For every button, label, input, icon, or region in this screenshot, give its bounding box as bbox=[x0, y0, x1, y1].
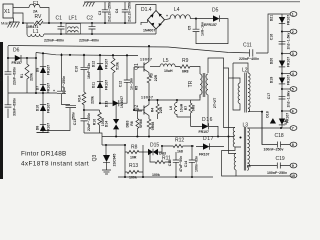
svg-text:6R8: 6R8 bbox=[192, 105, 196, 111]
svg-text:100nF~250v: 100nF~250v bbox=[264, 148, 284, 152]
wire C11 rail bbox=[249, 52, 268, 54]
svg-text:D6: D6 bbox=[13, 48, 20, 54]
svg-text:C11: C11 bbox=[243, 43, 252, 49]
svg-text:2x2.2n~250v: 2x2.2n~250v bbox=[128, 1, 132, 22]
svg-text:FR107: FR107 bbox=[105, 80, 109, 91]
inductor L5 bbox=[150, 58, 175, 73]
capacitor C3 bbox=[98, 1, 112, 23]
svg-text:C10: C10 bbox=[75, 66, 79, 72]
resistor R6 bbox=[130, 111, 143, 137]
diode D6 bbox=[12, 48, 23, 66]
capacitor C1 bbox=[56, 16, 65, 35]
wire ground rail bbox=[102, 136, 235, 138]
svg-text:FR107: FR107 bbox=[287, 15, 291, 26]
wire to D5 bbox=[190, 18, 196, 20]
svg-text:R13: R13 bbox=[129, 163, 138, 169]
wire mid rail bbox=[49, 22, 136, 24]
svg-text:C15: C15 bbox=[168, 160, 172, 166]
diac D14 bbox=[105, 102, 130, 136]
svg-text:22R: 22R bbox=[159, 106, 163, 113]
wire X1 top bbox=[13, 7, 29, 9]
terminal 1 bbox=[282, 12, 297, 17]
connector X1 bbox=[3, 4, 13, 18]
capacitor C14 bbox=[184, 145, 199, 177]
ground arrow right bbox=[270, 118, 276, 123]
svg-text:+: + bbox=[166, 14, 168, 18]
svg-text:2: 2 bbox=[292, 30, 294, 34]
wire C18 feed bbox=[262, 112, 277, 145]
capacitor C10 bbox=[75, 54, 92, 92]
svg-text:X1: X1 bbox=[4, 9, 10, 15]
svg-text:D8: D8 bbox=[36, 126, 40, 131]
border left edge (scan bar) bbox=[0, 42, 3, 179]
diode D18 bbox=[266, 111, 290, 125]
ground symbol small bbox=[283, 120, 288, 125]
terminal 6 bbox=[281, 109, 297, 114]
resistor R9 bbox=[175, 58, 200, 74]
svg-text:100R: 100R bbox=[101, 117, 105, 126]
svg-text:R1: R1 bbox=[20, 74, 24, 79]
svg-text:C7: C7 bbox=[0, 77, 4, 82]
inductor L4 bbox=[170, 7, 190, 19]
svg-text:5: 5 bbox=[292, 88, 294, 92]
svg-text:Q1: Q1 bbox=[134, 63, 140, 70]
svg-text:FR107: FR107 bbox=[47, 103, 51, 114]
diode D7 bbox=[36, 83, 51, 94]
wire pump rail bbox=[36, 53, 138, 94]
diode D9 bbox=[36, 65, 51, 76]
svg-text:R14: R14 bbox=[78, 95, 82, 101]
capacitor C2 bbox=[87, 16, 96, 35]
wire D12 column bbox=[99, 54, 101, 103]
ground hatch top bbox=[83, 2, 95, 7]
svg-text:22uF~100v: 22uF~100v bbox=[87, 113, 91, 131]
svg-text:100k: 100k bbox=[152, 173, 160, 177]
capacitor 33uF bbox=[44, 53, 77, 130]
svg-text:FR157: FR157 bbox=[12, 61, 23, 65]
wire left bus bbox=[7, 46, 9, 118]
svg-text:L5: L5 bbox=[163, 58, 169, 64]
svg-text:FR107: FR107 bbox=[199, 153, 210, 157]
wire midpoint bbox=[148, 86, 150, 100]
svg-text:C6: C6 bbox=[0, 104, 4, 109]
wire column join bbox=[84, 133, 102, 145]
capacitor C16 bbox=[269, 33, 290, 50]
resistor R13 bbox=[125, 163, 143, 180]
svg-text:13007: 13007 bbox=[140, 58, 152, 62]
capacitor C15 bbox=[168, 152, 183, 177]
svg-text:22R: 22R bbox=[154, 74, 158, 81]
resistor R1 bbox=[20, 58, 34, 93]
svg-text:510k: 510k bbox=[116, 62, 120, 70]
transformer L2 bbox=[229, 63, 264, 145]
svg-text:C16: C16 bbox=[269, 34, 273, 40]
capacitor C11 bbox=[239, 43, 259, 62]
svg-text:10uH: 10uH bbox=[180, 103, 184, 112]
svg-text:D7: D7 bbox=[36, 86, 40, 91]
wire right feed bbox=[268, 14, 282, 53]
diode D21 bbox=[269, 15, 290, 26]
svg-text:3: 3 bbox=[292, 52, 294, 56]
svg-text:D11: D11 bbox=[92, 82, 96, 88]
resistor R12 bbox=[161, 138, 194, 154]
svg-text:C19: C19 bbox=[276, 156, 285, 162]
svg-text:+: + bbox=[53, 89, 55, 93]
terminal 7 bbox=[281, 126, 297, 131]
terminal 4 bbox=[281, 71, 297, 76]
svg-text:D17: D17 bbox=[203, 136, 214, 142]
diode D10 bbox=[36, 103, 51, 114]
svg-text:R9: R9 bbox=[182, 58, 189, 64]
wire bottom rail bbox=[118, 176, 213, 178]
svg-text:DB3: DB3 bbox=[126, 120, 130, 127]
earth ground hatch bbox=[8, 18, 20, 28]
capacitor C5 bbox=[188, 19, 205, 36]
wire routing v2 bbox=[224, 68, 237, 154]
ground bar D8 bbox=[37, 132, 49, 134]
resistor 510k bbox=[111, 54, 120, 103]
svg-text:10R: 10R bbox=[130, 156, 137, 160]
svg-text:250v: 250v bbox=[72, 112, 76, 120]
terminal 9 bbox=[290, 163, 297, 168]
svg-text:C1: C1 bbox=[56, 16, 63, 22]
svg-text:D19: D19 bbox=[269, 77, 273, 83]
svg-text:220k: 220k bbox=[30, 73, 34, 81]
svg-text:FR107: FR107 bbox=[47, 65, 51, 76]
svg-text:C14: C14 bbox=[184, 161, 188, 167]
svg-text:FR107: FR107 bbox=[47, 123, 51, 134]
svg-text:2A: 2A bbox=[33, 10, 38, 14]
terminal 5 bbox=[281, 87, 297, 92]
svg-text:C13: C13 bbox=[73, 119, 77, 125]
wire lamp bus bbox=[281, 14, 283, 128]
svg-text:C17: C17 bbox=[267, 93, 271, 99]
svg-text:1k8: 1k8 bbox=[177, 150, 183, 154]
svg-text:16nF~63v: 16nF~63v bbox=[87, 63, 91, 79]
diode D19 bbox=[269, 75, 290, 86]
svg-text:100nF~250v: 100nF~250v bbox=[267, 171, 287, 175]
resistor R2 emitter bbox=[147, 119, 155, 137]
resistor R4 bbox=[151, 100, 164, 119]
transformer L3 bbox=[217, 123, 290, 177]
svg-text:8: 8 bbox=[292, 143, 294, 147]
svg-text:0R68: 0R68 bbox=[139, 119, 143, 127]
svg-text:D13: D13 bbox=[105, 101, 109, 107]
node junction bbox=[22, 22, 24, 24]
svg-text:D14: D14 bbox=[105, 121, 109, 127]
svg-text:L1: L1 bbox=[33, 29, 39, 35]
node bbox=[48, 22, 50, 24]
transformer TR bbox=[188, 73, 208, 98]
wire R8 ladder bbox=[102, 145, 143, 177]
resistor R3 bbox=[147, 73, 158, 86]
svg-text:6R8: 6R8 bbox=[182, 70, 188, 74]
wire after fuse bbox=[40, 8, 49, 24]
svg-text:33uF~250v: 33uF~250v bbox=[62, 76, 66, 94]
svg-text:2n2~1.8kv: 2n2~1.8kv bbox=[287, 91, 291, 108]
capacitor C12 bbox=[119, 54, 134, 103]
diode D16 bbox=[191, 117, 219, 137]
svg-text:10uH: 10uH bbox=[164, 69, 173, 73]
svg-text:FR107: FR107 bbox=[47, 83, 51, 94]
svg-text:1N4007: 1N4007 bbox=[143, 28, 155, 32]
transistor Q2 bbox=[134, 96, 153, 120]
diode D5 bbox=[204, 8, 220, 28]
inductor L1 bbox=[27, 23, 44, 37]
svg-text:C12: C12 bbox=[119, 81, 123, 87]
svg-text:10: 10 bbox=[291, 174, 295, 178]
svg-text:R10: R10 bbox=[93, 119, 97, 125]
svg-text:0R68: 0R68 bbox=[151, 122, 155, 130]
svg-text:220k: 220k bbox=[91, 96, 95, 104]
svg-text:6: 6 bbox=[292, 110, 294, 114]
svg-text:LF1: LF1 bbox=[69, 16, 78, 22]
svg-text:4: 4 bbox=[292, 72, 294, 76]
junction dots filter rails bbox=[60, 22, 62, 24]
svg-text:R7: R7 bbox=[184, 106, 188, 111]
wire D6 row bbox=[8, 57, 36, 59]
wire Q1 base net bbox=[133, 67, 135, 110]
svg-text:R6: R6 bbox=[130, 121, 134, 126]
wire diode column bbox=[42, 54, 44, 133]
svg-text:1n~1kv: 1n~1kv bbox=[130, 78, 134, 90]
svg-text:Q3: Q3 bbox=[92, 154, 98, 161]
svg-text:C4: C4 bbox=[115, 9, 119, 14]
svg-text:L4: L4 bbox=[174, 7, 180, 13]
svg-text:D10: D10 bbox=[36, 105, 40, 111]
svg-text:FR107: FR107 bbox=[287, 75, 291, 86]
resistor R10 bbox=[84, 110, 105, 133]
svg-text:EFR157: EFR157 bbox=[204, 23, 217, 27]
svg-text:D18: D18 bbox=[266, 111, 270, 117]
diode D12 bbox=[92, 59, 109, 70]
svg-text:C18: C18 bbox=[275, 133, 284, 139]
capacitor C7 bbox=[0, 67, 17, 85]
wire bridge ac2 bbox=[155, 29, 157, 34]
svg-text:D5: D5 bbox=[212, 8, 219, 14]
svg-text:4xF18T8 instant start: 4xF18T8 instant start bbox=[21, 161, 89, 168]
resistor R14 bbox=[78, 92, 95, 110]
svg-text:7: 7 bbox=[292, 127, 294, 131]
svg-text:47uF~50v: 47uF~50v bbox=[179, 156, 183, 172]
wire bottom rail bbox=[44, 33, 156, 35]
svg-text:D16: D16 bbox=[202, 117, 213, 123]
svg-text:9: 9 bbox=[292, 164, 294, 168]
wire TR bottom bbox=[177, 95, 208, 127]
capacitor C6 bbox=[0, 98, 17, 116]
svg-text:RV: RV bbox=[35, 14, 43, 20]
svg-text:13007: 13007 bbox=[141, 96, 153, 100]
svg-text:2T+2T: 2T+2T bbox=[213, 97, 217, 108]
wire bridge dc minus stub bbox=[141, 20, 148, 25]
diode D8 bbox=[36, 123, 51, 134]
svg-text:2x2.2n~250v: 2x2.2n~250v bbox=[108, 1, 112, 22]
wire B+ rail bbox=[8, 46, 250, 53]
resistor R5 bbox=[135, 86, 139, 91]
wire bridge ac1 loop bbox=[136, 5, 156, 24]
wire routing v3 bbox=[233, 63, 240, 110]
svg-text:D21: D21 bbox=[269, 15, 273, 21]
svg-text:220nF~400v: 220nF~400v bbox=[79, 39, 99, 43]
resistor R7 bbox=[177, 100, 196, 117]
wire mid row bbox=[8, 92, 57, 94]
svg-text:33nF~630v: 33nF~630v bbox=[13, 98, 17, 116]
terminal 3 bbox=[281, 51, 297, 56]
svg-text:D1.4: D1.4 bbox=[141, 7, 152, 13]
svg-text:2SC945: 2SC945 bbox=[113, 154, 117, 167]
capacitor C18 bbox=[264, 133, 291, 152]
svg-text:TR: TR bbox=[188, 80, 194, 87]
svg-text:220nF~400v: 220nF~400v bbox=[239, 57, 259, 61]
svg-text:100n~63v: 100n~63v bbox=[195, 156, 199, 172]
svg-text:D20: D20 bbox=[269, 58, 273, 64]
wire top rail bbox=[86, 1, 300, 3]
svg-text:R12: R12 bbox=[175, 138, 184, 144]
transistor Q3 bbox=[92, 144, 117, 174]
resistor R8 bbox=[125, 145, 143, 160]
wire X1 pin2 bbox=[13, 13, 23, 23]
loop C5 box bbox=[196, 19, 228, 44]
diode D13 bbox=[100, 96, 127, 108]
transistor Q1 bbox=[134, 45, 152, 75]
varistor RV bbox=[23, 14, 49, 29]
wire bridge out bbox=[165, 19, 171, 20]
svg-text:R5: R5 bbox=[135, 86, 139, 91]
svg-text:220nF~400v: 220nF~400v bbox=[44, 39, 64, 43]
svg-text:FR107: FR107 bbox=[199, 130, 210, 134]
svg-text:1: 1 bbox=[292, 13, 294, 17]
svg-text:22nF~630v: 22nF~630v bbox=[13, 67, 17, 85]
wire routing v1 bbox=[208, 58, 235, 128]
svg-text:FR107: FR107 bbox=[105, 59, 109, 70]
svg-text:2n2~1.6kv: 2n2~1.6kv bbox=[287, 33, 291, 50]
svg-text:D15: D15 bbox=[150, 143, 159, 149]
capacitor C13 bbox=[73, 109, 91, 133]
svg-text:D9: D9 bbox=[36, 68, 40, 73]
diode D17 bbox=[196, 136, 224, 157]
terminal 8 bbox=[290, 142, 297, 147]
svg-text:R4: R4 bbox=[151, 108, 155, 113]
svg-text:R8: R8 bbox=[131, 145, 138, 151]
svg-text:C3: C3 bbox=[98, 11, 102, 16]
terminal 2 bbox=[281, 29, 297, 34]
capacitor C4 bbox=[115, 1, 132, 23]
svg-text:Fintor DR148B: Fintor DR148B bbox=[21, 151, 67, 158]
svg-text:D12: D12 bbox=[92, 61, 96, 67]
svg-text:C2: C2 bbox=[87, 16, 94, 22]
terminal 10 bbox=[290, 173, 297, 178]
inductor L6 bbox=[149, 99, 184, 117]
diode D11 bbox=[92, 80, 109, 91]
bridge rectifier D1.4 bbox=[141, 7, 168, 32]
diode D20 bbox=[269, 57, 290, 68]
capacitor C17 bbox=[267, 91, 291, 108]
resistor R11 bbox=[150, 152, 171, 177]
svg-text:C5: C5 bbox=[188, 26, 192, 31]
capacitor C19 bbox=[267, 156, 290, 175]
fuse F1 bbox=[29, 1, 40, 13]
svg-text:FR107: FR107 bbox=[287, 57, 291, 68]
diac D15 bbox=[143, 143, 166, 156]
svg-text:1N4007: 1N4007 bbox=[120, 96, 124, 108]
svg-text:L6: L6 bbox=[169, 106, 173, 110]
filter LF1 bbox=[66, 16, 81, 35]
